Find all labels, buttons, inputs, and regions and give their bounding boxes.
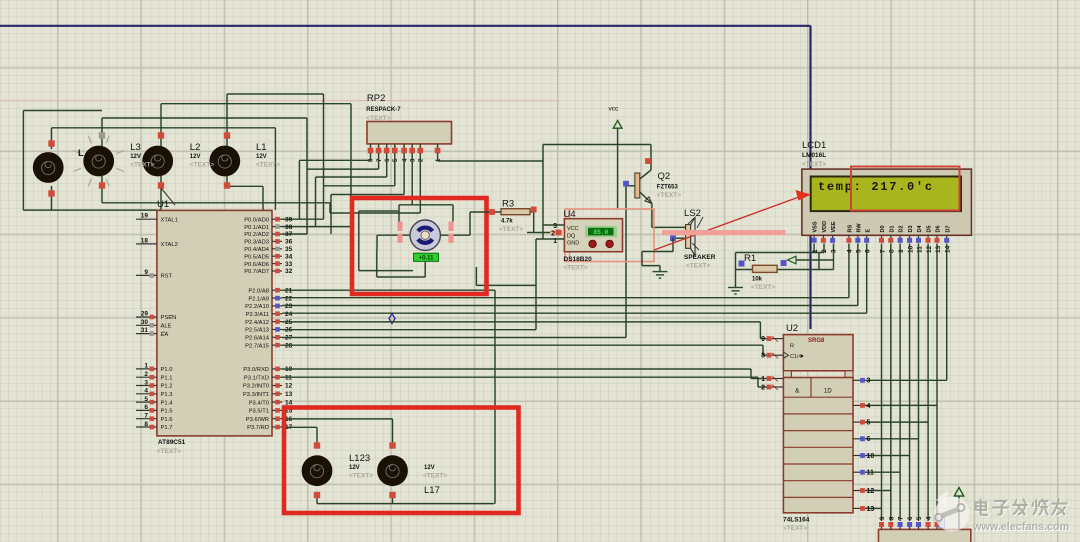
wire lamp rail D (lamp top rail) — [52, 128, 276, 210]
terminal arrow VEE — [788, 244, 834, 270]
svg-text:U1: U1 — [157, 199, 169, 210]
wire P2.7 to U2 pin8 — [282, 345, 767, 355]
svg-text:L123: L123 — [349, 453, 370, 464]
wire P2.2 to LCD RW — [282, 244, 858, 306]
speaker LS2 — [670, 208, 716, 270]
lamp L17 — [377, 442, 408, 498]
svg-text:1: 1 — [553, 238, 557, 245]
svg-text:+0.11: +0.11 — [419, 256, 435, 262]
svg-text:30: 30 — [141, 319, 149, 326]
svg-text:13: 13 — [935, 245, 942, 253]
svg-text:1: 1 — [761, 376, 765, 383]
svg-text:P2.6/A14: P2.6/A14 — [245, 336, 270, 342]
U1 right pins P0 — [244, 216, 292, 275]
wire P2.1 to LCD RS — [282, 244, 849, 298]
svg-text:P3.6/WR: P3.6/WR — [246, 417, 269, 423]
watermark text — [972, 500, 1070, 535]
red annotation box bottom — [284, 408, 519, 514]
svg-text:LM016L: LM016L — [802, 152, 826, 159]
svg-text:<TEXT>: <TEXT> — [657, 192, 681, 199]
red annotation thick line — [662, 230, 786, 235]
U1 right pins P3 — [243, 366, 293, 431]
svg-text:D6: D6 — [936, 225, 942, 232]
svg-text:P1.7: P1.7 — [161, 425, 173, 431]
svg-text:<TEXT>: <TEXT> — [564, 265, 588, 272]
svg-text:35: 35 — [285, 246, 293, 253]
svg-text:13: 13 — [867, 506, 875, 513]
faint pink line — [0, 100, 560, 102]
resistor R1 10k — [736, 253, 834, 291]
svg-text:9: 9 — [898, 249, 905, 253]
svg-text:P3.3/INT1: P3.3/INT1 — [243, 392, 269, 398]
wire P2.6 to Q2 base — [282, 186, 626, 338]
svg-text:24: 24 — [285, 311, 293, 318]
svg-text:FZT653: FZT653 — [657, 185, 679, 191]
svg-text:P0.4/AD4: P0.4/AD4 — [244, 247, 270, 253]
svg-text:3: 3 — [867, 378, 871, 385]
motor terminals — [398, 222, 454, 244]
svg-text:9: 9 — [144, 269, 148, 276]
svg-text:5: 5 — [856, 249, 863, 253]
sensor U4 DS18B20 — [564, 209, 655, 272]
svg-text:VEE: VEE — [831, 221, 837, 232]
svg-text:12V: 12V — [424, 465, 435, 471]
svg-text:LS2: LS2 — [684, 208, 701, 219]
wire motor loop — [359, 205, 536, 286]
svg-text:12V: 12V — [349, 465, 360, 471]
svg-text:P0.6/AD6: P0.6/AD6 — [244, 262, 269, 268]
svg-text:1D: 1D — [824, 389, 832, 395]
wire Q2 emitter to speaker — [652, 204, 686, 228]
svg-text:P3.5/T1: P3.5/T1 — [249, 409, 269, 415]
watermark logo — [935, 490, 970, 532]
svg-text:2: 2 — [761, 384, 765, 391]
svg-text:L1: L1 — [256, 142, 267, 153]
svg-text:<TEXT>: <TEXT> — [349, 473, 373, 480]
svg-text:3: 3 — [144, 379, 148, 386]
RP2 pins — [368, 144, 442, 162]
svg-text:6: 6 — [144, 404, 148, 411]
svg-text:11: 11 — [867, 470, 875, 477]
lamp L2/L1 rightmost — [209, 132, 240, 188]
red annotation arrow to LCD — [654, 190, 811, 250]
lamp L4 (leftmost) — [33, 140, 64, 196]
svg-text:R3: R3 — [502, 199, 514, 210]
svg-text:U4: U4 — [564, 209, 576, 220]
svg-text:<TEXT>: <TEXT> — [499, 226, 523, 233]
svg-text:R1: R1 — [744, 253, 756, 264]
svg-text:P2.5/A13: P2.5/A13 — [245, 328, 269, 334]
wire outer lamp loop left — [23, 111, 161, 211]
svg-text:D5: D5 — [927, 225, 933, 232]
svg-text:<TEXT>: <TEXT> — [751, 284, 775, 291]
svg-text:12V: 12V — [190, 154, 201, 160]
svg-text:P2.4/A12: P2.4/A12 — [245, 320, 269, 326]
wire lamp rail A (lamp L1 top to U1 P0.0) — [227, 94, 324, 219]
resistor pack RP2 — [366, 93, 451, 144]
svg-text:DQ: DQ — [567, 233, 576, 239]
wire lamp box bottom rail — [317, 492, 494, 504]
label L3 — [130, 142, 154, 169]
svg-text:23: 23 — [285, 303, 293, 310]
transistor Q2 FZT653 — [623, 145, 681, 204]
svg-text:VDD: VDD — [822, 221, 828, 233]
svg-text:P0.1/AD1: P0.1/AD1 — [244, 225, 269, 231]
svg-text:37: 37 — [285, 231, 293, 238]
svg-text:<TEXT>: <TEXT> — [190, 162, 214, 169]
svg-text:12V: 12V — [130, 154, 141, 160]
red annotation box around motor — [352, 198, 487, 294]
wire P2.0 to lamp box — [282, 290, 495, 503]
svg-text:6: 6 — [865, 249, 872, 253]
svg-text:12: 12 — [867, 488, 875, 495]
blue border line horizontal — [0, 25, 811, 27]
svg-text:85.0: 85.0 — [593, 229, 608, 236]
svg-text:P1.3: P1.3 — [161, 392, 173, 398]
svg-text:RST: RST — [161, 274, 173, 280]
svg-text:10: 10 — [867, 453, 875, 460]
svg-text:vcc: vcc — [609, 106, 620, 113]
svg-text:39: 39 — [285, 216, 293, 223]
svg-text:L17: L17 — [424, 485, 440, 496]
svg-text:D2: D2 — [899, 225, 905, 232]
svg-text:D1: D1 — [889, 225, 895, 232]
svg-text:EA: EA — [161, 332, 169, 338]
svg-text:DS18B20: DS18B20 — [564, 256, 593, 263]
lamp with rays (lit) — [83, 132, 114, 188]
svg-text:10: 10 — [907, 245, 914, 253]
connector J1 — [879, 516, 971, 542]
svg-text:4: 4 — [144, 388, 148, 395]
lamp L3 — [142, 132, 173, 188]
resistor R3 4.7k — [470, 199, 537, 234]
wire lamp rail C (lamp L3 top to U1 P0.2) — [102, 118, 307, 234]
svg-text:4: 4 — [847, 249, 854, 253]
svg-text:SRG8: SRG8 — [808, 338, 825, 344]
svg-text:L3: L3 — [130, 142, 141, 153]
svg-text:32: 32 — [285, 268, 293, 275]
wire LCD VSS VDD to ground — [736, 244, 825, 288]
wire LCD D0-D7 columns — [882, 244, 947, 522]
svg-text:2: 2 — [821, 249, 828, 253]
svg-text:36: 36 — [285, 239, 293, 246]
svg-text:P2.1/A9: P2.1/A9 — [248, 296, 269, 302]
svg-text:P0.2/AD2: P0.2/AD2 — [244, 232, 269, 238]
svg-text:P3.2/INT0: P3.2/INT0 — [243, 384, 269, 390]
svg-text:3: 3 — [830, 249, 837, 253]
leader line to U1 label — [161, 188, 175, 205]
svg-text:1: 1 — [144, 363, 148, 370]
svg-text:&: & — [795, 388, 800, 395]
wire lamp L1 bottom to U1 — [227, 176, 263, 210]
svg-text:12V: 12V — [256, 154, 267, 160]
power arrow at connector — [954, 488, 963, 530]
U1 left pins P1.0-P1.7 — [136, 363, 173, 432]
U2 left pins — [761, 336, 783, 391]
svg-text:P1.1: P1.1 — [161, 375, 173, 381]
svg-text:GND: GND — [567, 241, 579, 247]
svg-text:29: 29 — [141, 311, 149, 318]
wire P3.1 to U2 pin2 — [282, 377, 767, 387]
microcontroller U1 AT89C51 body — [157, 199, 272, 455]
svg-text:2: 2 — [551, 231, 555, 238]
svg-text:9: 9 — [761, 336, 765, 343]
svg-text:5: 5 — [144, 396, 148, 403]
svg-text:38: 38 — [285, 224, 293, 231]
svg-text:P2.2/A10: P2.2/A10 — [245, 304, 269, 310]
svg-text:12: 12 — [285, 383, 293, 390]
wire RP2 staircase to lamps — [299, 153, 420, 234]
svg-text:<TEXT>: <TEXT> — [686, 263, 710, 270]
svg-text:4: 4 — [867, 403, 871, 410]
lamp rays around lit lamp — [73, 136, 124, 187]
svg-text:P3.0/RXD: P3.0/RXD — [243, 367, 269, 373]
wire speaker to ground — [642, 238, 673, 271]
svg-text:RS: RS — [848, 225, 854, 233]
svg-text:temp: 217.0'c: temp: 217.0'c — [818, 180, 934, 194]
svg-text:P0.7/AD7: P0.7/AD7 — [244, 269, 269, 275]
svg-text:XTAL1: XTAL1 — [161, 217, 178, 223]
svg-text:E: E — [865, 229, 871, 233]
svg-text:4.7k: 4.7k — [501, 219, 513, 225]
LCD pins — [812, 221, 952, 253]
lamp L123 — [302, 442, 333, 498]
svg-text:www.elecfans.com: www.elecfans.com — [972, 521, 1069, 533]
svg-text:P1.2: P1.2 — [161, 384, 173, 390]
ground below R1 — [728, 288, 743, 295]
svg-text:P3.4/T0: P3.4/T0 — [249, 400, 269, 406]
LCD1 LM016L display — [802, 140, 972, 235]
svg-text:SPEAKER: SPEAKER — [684, 254, 716, 261]
svg-text:1: 1 — [812, 249, 819, 253]
svg-text:18: 18 — [141, 237, 149, 244]
svg-text:P2.3/A11: P2.3/A11 — [246, 312, 269, 318]
svg-text:12: 12 — [926, 245, 933, 253]
svg-text:P2.7/A15: P2.7/A15 — [245, 343, 269, 349]
svg-text:5: 5 — [867, 420, 871, 427]
blue border line vertical — [809, 26, 811, 329]
svg-text:P2.0/A8: P2.0/A8 — [248, 288, 269, 294]
svg-text:74LS164: 74LS164 — [783, 517, 810, 524]
svg-text:22: 22 — [285, 295, 293, 302]
svg-text:14: 14 — [945, 245, 952, 253]
svg-text:7: 7 — [144, 413, 148, 420]
svg-text:L: L — [78, 148, 84, 158]
svg-text:6: 6 — [867, 436, 871, 443]
svg-text:XTAL2: XTAL2 — [161, 242, 178, 248]
svg-text:13: 13 — [285, 391, 293, 398]
svg-text:19: 19 — [141, 213, 149, 220]
wire lamp bottom rail — [52, 176, 331, 213]
wire lamp rail B (lamp L2 top to U1 P0.1) — [161, 104, 351, 227]
svg-text:3: 3 — [553, 223, 557, 230]
svg-text:PSEN: PSEN — [161, 315, 177, 321]
svg-text:D3: D3 — [908, 225, 914, 232]
svg-text:P1.6: P1.6 — [161, 417, 173, 423]
svg-text:<TEXT>: <TEXT> — [130, 162, 154, 169]
motor value display +0.11 — [414, 253, 439, 261]
svg-text:8: 8 — [144, 421, 148, 428]
svg-text:P0.0/AD0: P0.0/AD0 — [244, 217, 269, 223]
svg-text:D0: D0 — [880, 225, 886, 232]
svg-text:34: 34 — [285, 253, 293, 260]
U4 pins — [527, 161, 564, 245]
power vcc — [609, 106, 623, 210]
svg-text:D4: D4 — [917, 225, 923, 233]
svg-text:P3.1/TXD: P3.1/TXD — [244, 375, 269, 381]
wire P3.7 to lamp L123 — [282, 427, 317, 448]
shift register U2 74LS164 — [783, 323, 853, 532]
svg-text:8: 8 — [889, 249, 896, 253]
svg-text:D7: D7 — [945, 225, 951, 232]
svg-text:U2: U2 — [786, 323, 798, 334]
svg-text:P0.3/AD3: P0.3/AD3 — [244, 240, 269, 246]
svg-text:<TEXT>: <TEXT> — [783, 525, 807, 532]
svg-text:<TEXT>: <TEXT> — [157, 448, 181, 455]
wire U2 output staircase — [865, 380, 947, 508]
svg-text:10k: 10k — [752, 277, 763, 283]
svg-text:11: 11 — [916, 246, 923, 253]
svg-text:P1.5: P1.5 — [161, 409, 173, 415]
svg-text:31: 31 — [141, 327, 149, 334]
wire P2.5 to U4 GND — [282, 239, 536, 330]
svg-text:33: 33 — [285, 261, 293, 268]
red annotation rectangle on LCD — [851, 167, 960, 211]
svg-text:AT89C51: AT89C51 — [158, 439, 186, 446]
svg-text:<TEXT>: <TEXT> — [256, 162, 280, 169]
wire RP2 pin1 to vcc rail — [438, 145, 651, 162]
wire P3.0 to U2 pin1 — [282, 369, 767, 379]
svg-text:2: 2 — [144, 371, 148, 378]
svg-text:<TEXT>: <TEXT> — [423, 473, 447, 480]
svg-text:<TEXT>: <TEXT> — [802, 161, 826, 168]
svg-text:7: 7 — [879, 249, 886, 253]
svg-text:VSS: VSS — [813, 221, 819, 232]
svg-text:8: 8 — [761, 353, 765, 360]
ground near speaker — [653, 272, 668, 279]
wire P3.6 to lamp L17 — [282, 419, 393, 448]
motor M1 — [410, 220, 440, 250]
svg-text:P1.0: P1.0 — [161, 367, 173, 373]
svg-text:RESPACK-7: RESPACK-7 — [366, 107, 401, 113]
label L1 — [256, 142, 280, 169]
svg-text:RW: RW — [856, 223, 862, 233]
U1 left pins XTAL RST PSEN ALE EA — [136, 213, 178, 338]
U1 right pins P2 — [245, 287, 292, 349]
svg-text:L2: L2 — [190, 142, 201, 153]
node junction marker — [389, 314, 395, 324]
svg-text:ALE: ALE — [161, 324, 172, 330]
label L17 — [423, 465, 447, 496]
svg-text:C1/: C1/ — [790, 354, 799, 360]
U2 right pins — [853, 378, 874, 513]
svg-text:P3.7/RD: P3.7/RD — [247, 425, 269, 431]
svg-text:VCC: VCC — [567, 226, 579, 232]
svg-text:RP2: RP2 — [367, 93, 385, 104]
svg-text:P1.4: P1.4 — [161, 400, 174, 406]
wire P2.4 to U2 pin9 — [282, 322, 767, 339]
svg-text:LCD1: LCD1 — [802, 140, 826, 151]
svg-text:P0.5/AD5: P0.5/AD5 — [244, 254, 269, 260]
wire P2.3 to LCD E — [282, 244, 867, 314]
svg-text:R: R — [790, 344, 794, 350]
svg-text:Q2: Q2 — [658, 171, 671, 182]
label L123 — [349, 453, 373, 480]
label L2 — [190, 142, 214, 169]
